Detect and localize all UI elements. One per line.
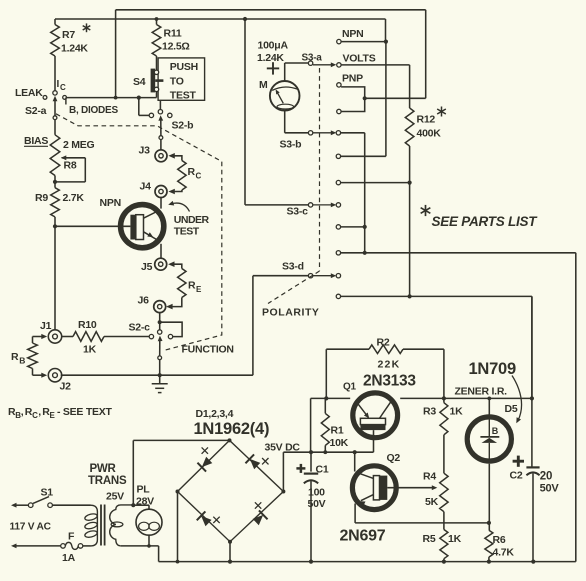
svg-text:R6: R6 [493,534,506,546]
wire second-bus right drop [385,19,387,42]
svg-text:C2: C2 [510,470,523,482]
wire R3-R4 [443,435,445,473]
label BIAS [24,135,48,147]
switch S2-a contact IB [63,96,67,100]
label R8 [64,160,77,172]
svg-text:R1: R1 [331,425,344,437]
svg-text:1N709: 1N709 [469,360,516,378]
wire VOLTS to R12 [341,65,410,108]
label R6 value [493,534,515,559]
resistor R5 [440,530,448,562]
label J6 [138,295,150,307]
svg-text:R8: R8 [64,160,77,172]
transformer T1 secondary [110,505,134,546]
switch S2-c contact right [168,334,172,338]
label NPN position [342,28,363,40]
wire secondary bottom [121,544,159,548]
fuse F [61,542,83,549]
label + C1 [296,464,328,476]
svg-text:C: C [60,83,66,92]
label S3-c [287,206,309,218]
svg-text:28V: 28V [136,495,154,507]
svg-text:R11: R11 [164,28,182,40]
label 35V DC [265,442,301,454]
label S3-d [282,261,304,273]
switch S4 box [158,58,205,100]
wire S2-b pivot to J3 [160,140,162,150]
resistor R6 [485,530,493,561]
switch S3-c contact 3 [336,251,576,255]
wire meter minus [285,111,309,133]
switch S4 contact bottom [154,87,158,97]
node junction C2 bottom [531,560,535,564]
transformer T1 core [101,505,105,546]
svg-text:J6: J6 [138,295,150,307]
label R4 value [425,496,439,508]
svg-text:R12: R12 [417,114,436,126]
svg-text:1.24K: 1.24K [61,43,88,55]
wire S2-c bracket [160,322,182,336]
switch S3-d wiper [313,273,336,278]
label R3 value [423,406,463,418]
svg-text:R: R [11,351,19,363]
label RC [188,166,202,181]
svg-text:SEE PARTS LIST: SEE PARTS LIST [432,214,539,229]
label RB RC RE SEE TEXT [8,406,113,420]
wire zener bottom [488,464,490,531]
svg-text:35V DC: 35V DC [265,442,301,454]
label D5 [505,403,518,415]
wire J1 to RB [33,334,48,343]
node junction NPN wire [384,40,388,44]
capacitor C2 [526,296,539,561]
svg-text:M: M [259,79,268,91]
svg-text:1N1962(4): 1N1962(4) [194,420,270,438]
label S2-a [25,105,47,117]
label S4 [133,76,146,88]
switch S2-b pivot [159,136,163,140]
wire PNP bracket [341,87,365,112]
switch S3-a contact NPN [337,39,341,43]
switch S3-b pole [308,131,312,135]
node junction R12 net/296 [408,294,412,298]
svg-text:2 MEG: 2 MEG [63,139,95,151]
wire NPN contact [341,41,387,43]
svg-text:TRANS: TRANS [88,475,127,487]
label S1 [41,487,54,499]
svg-text:TEST: TEST [174,225,200,237]
switch S3-c wiper [313,203,336,208]
wire top bus left drop [115,10,117,98]
wire J4 to collector [160,197,162,208]
svg-text:4.7K: 4.7K [493,547,515,559]
svg-text:C: C [32,411,38,420]
label ZENER I.R. [455,386,508,398]
svg-text:50V: 50V [308,498,326,510]
svg-text:B, DIODES: B, DIODES [69,105,118,116]
label R4 [423,471,436,483]
jack J5 [155,258,167,270]
wire Q1 base [373,430,375,452]
svg-text:1A: 1A [62,552,76,564]
diode D4 (lower-right leg) [253,502,268,525]
svg-text:S2-a: S2-a [25,105,47,117]
switch S3-a contact PNP2 [337,109,341,113]
label 25V [106,491,124,503]
wire emitter to J5 [160,244,162,258]
label + meter [267,62,279,74]
svg-text:25V: 25V [106,491,124,503]
bridge diamond [176,438,286,543]
resistor R3 [440,398,448,434]
wire AC line bottom [11,544,61,549]
meter M [270,81,300,111]
svg-text:POLARITY: POLARITY [262,307,319,319]
switch S2-c contact left [149,334,153,338]
svg-text:100μA: 100μA [258,40,289,52]
svg-text:S3-b: S3-b [280,139,302,151]
switch S2-a wiper [53,96,58,116]
label R1 value [330,437,349,449]
svg-text:S2-c: S2-c [129,322,151,334]
svg-text:R5: R5 [423,533,436,545]
label 117 V AC [10,522,52,533]
label SEE PARTS LIST [421,205,539,229]
svg-text:,: , [21,406,24,418]
label J2 [60,381,72,393]
svg-text:R3: R3 [423,406,436,418]
zener diode D5 [467,398,511,461]
svg-text:S3-a: S3-a [302,53,323,64]
label J1 [40,320,52,332]
svg-text:R4: R4 [423,471,436,483]
wire bridge minus drop [176,492,180,564]
wire S2-c to ground [159,360,161,375]
switch S3-b contact 1 [336,131,365,135]
switch S3-a contact PNP [337,83,341,87]
pilot lamp PL [136,505,162,545]
wire S2-a to bias pot [54,120,56,135]
svg-text:R7: R7 [62,29,75,41]
label 1.24K meter [257,52,284,64]
svg-text:R10: R10 [78,319,97,331]
wire second bus (R7/R11 net) [55,18,386,20]
node junction second-bus / meter branch [243,17,247,21]
switch S3-b wiper [313,130,336,135]
resistor RB [28,343,48,378]
svg-text:Q1: Q1 [343,382,357,393]
svg-text:PUSH: PUSH [170,61,198,73]
svg-text:10K: 10K [330,437,349,449]
svg-text:,: , [38,406,41,418]
jack J2 [48,369,61,382]
svg-text:ZENER I.R.: ZENER I.R. [455,386,508,398]
wire base to NPN [55,225,130,227]
switch S2-c pivot [158,356,162,360]
label M [259,79,268,91]
switch S2-b contact left [149,113,153,117]
svg-text:C: C [196,172,202,181]
node junction 25V tap [131,503,135,507]
diode D2 (upper-right leg) [245,454,268,469]
label S3-a [302,53,323,64]
switch S1 [28,497,52,508]
svg-text:BIAS: BIAS [24,135,48,147]
label RB [11,351,25,366]
svg-text:20: 20 [540,471,552,483]
wire fuse to transformer [83,545,91,547]
resistor R2 [369,345,403,354]
switch S4 contact top [154,70,158,74]
arrow to transistor under test [168,201,189,212]
label J4 [140,181,152,193]
resistor R12 [405,108,414,183]
svg-text:- SEE TEXT: - SEE TEXT [57,406,113,418]
label FUNCTION [182,344,234,356]
svg-text:PL: PL [137,484,151,496]
label S3-b [280,139,302,151]
switch S3-a contact VOLTS [337,63,341,67]
switch S2-b wiper [158,115,163,135]
svg-text:F: F [68,531,75,543]
label R1 [331,425,344,437]
svg-text:Q2: Q2 [387,452,401,464]
label R2 [377,337,390,349]
svg-text:400K: 400K [417,128,442,140]
jack J1 [48,330,61,343]
wire top bus (S4/box net) [116,9,426,11]
resistor R9 [51,182,60,226]
svg-text:PWR: PWR [90,463,117,475]
label C1 value [308,487,326,511]
diode D1 (upper-left leg) [197,447,212,471]
wire top bus right drop [425,10,427,99]
switch S2-a contact LEAK [43,96,47,100]
switch S3-d contact 2 [336,294,532,298]
wire Q2 base to R4 [387,485,437,490]
label + C2 [510,456,525,482]
arrow to D5 [512,376,522,424]
label F [68,531,75,543]
label R2 value [378,359,401,371]
label C2 value [540,471,560,495]
svg-text:2N3133: 2N3133 [363,373,416,390]
wire ground bus [61,374,253,376]
wire main rail left [311,398,351,452]
label LEAK [15,87,43,99]
label Q2 [387,452,401,464]
label POLARITY [262,307,319,319]
label R7 value [61,23,90,54]
capacitor C1 [304,452,318,561]
label R10 [78,319,97,331]
switch S3-b contact 3 [336,180,409,184]
node junction C1 bottom [309,560,313,564]
node junction R5 bottom [442,560,446,564]
label R10 value [83,344,97,356]
label 1N709 [469,360,516,378]
svg-text:R2: R2 [377,337,390,349]
wire secondary top [133,504,149,506]
potentiometer R4 [440,473,448,512]
resistor RC [168,153,186,194]
resistor R10 [62,332,149,342]
svg-text:1K: 1K [448,533,462,545]
svg-text:1K: 1K [450,406,464,418]
label D1,2,3,4 [196,408,234,420]
transistor Q1 [353,393,398,438]
wire PNP to top-bus drop [365,97,426,99]
svg-text:R9: R9 [35,192,48,204]
svg-text:S2-b: S2-b [172,120,194,132]
switch S3-a wiper [313,62,336,67]
jack J3 [155,150,167,162]
label R5 value [423,533,462,545]
label 100uA [258,40,289,52]
switch S2-b contact center [158,100,162,114]
switch S3-a pole [308,61,312,65]
wire IB net [67,97,157,99]
label S2-b [172,120,194,132]
svg-text:22K: 22K [378,359,401,371]
wire J6 drop [159,312,161,330]
node junction PNP bracket [363,96,367,100]
potentiometer R8 wiper [55,155,85,182]
svg-text:LEAK: LEAK [15,87,43,99]
switch S2-c contact center [158,330,162,334]
svg-text:D5: D5 [505,403,518,415]
switch S2-b contact right [168,113,172,117]
node junction base [53,224,57,228]
resistor RE [166,261,186,309]
label IC [57,79,67,92]
label 2 MEG [63,139,95,151]
svg-text:2.7K: 2.7K [63,192,85,204]
resistor R7 [51,19,60,91]
wire S3 bracket vertical [364,133,366,253]
svg-text:J3: J3 [139,145,151,157]
node junction R1 top [324,396,328,400]
svg-text:J2: J2 [60,381,72,393]
switch S2-a contact IC [53,91,57,95]
wire Q2 emitter [355,504,488,523]
label J3 [139,145,151,157]
ground symbol [152,375,168,392]
label VOLTS [343,53,376,65]
label J5 [141,261,153,273]
svg-text:J5: J5 [141,261,153,273]
svg-text:1.24K: 1.24K [257,52,284,64]
node junction bracket/226 [363,225,367,229]
svg-text:NPN: NPN [342,28,363,40]
switch S3-c contact 2 [336,225,365,229]
switch S4 button [151,69,164,93]
svg-text:100: 100 [308,487,325,499]
label R12 value [417,107,446,140]
switch S2-a pivot [53,116,57,120]
svg-text:1K: 1K [83,344,97,356]
svg-text:S3-d: S3-d [282,261,304,273]
wire bridge plus [283,452,373,491]
wire S3-c feed [245,19,309,205]
wire R2 right leg [403,349,444,398]
node junction zener top [487,397,491,401]
resistor 2 MEG (R8 pot) [50,135,60,182]
label PL 28V [136,484,154,508]
svg-text:S1: S1 [41,487,54,499]
jack J4 [155,186,167,198]
svg-text:5K: 5K [425,496,439,508]
wire S3-d feed [253,276,309,376]
switch S3-b contact 2 [336,154,340,158]
node junction R8/R9 [53,180,57,184]
svg-text:50V: 50V [540,482,560,494]
wire AC line top [11,503,28,508]
svg-text:TEST: TEST [170,90,197,102]
label 1N1962(4) [194,420,270,438]
switch S3-d pole [308,274,312,278]
svg-text:J4: J4 [140,181,152,193]
label PNP position [342,73,363,85]
svg-text:D1,2,3,4: D1,2,3,4 [196,408,234,420]
node junction R3 top [442,396,446,400]
label R9 value [35,192,84,204]
ganged switch S3 link [268,68,320,304]
svg-text:R: R [188,280,196,292]
wire 296 drop [531,296,533,398]
node junction IB wire to S2-b [137,96,150,116]
node junction R12 bottom [408,181,412,185]
wire right outer drop [575,253,577,562]
node junction zener/emitter [487,521,491,525]
label NPN (device type) [100,197,121,209]
svg-text:B: B [19,356,25,366]
node junction R1 bottom [323,450,327,454]
label B in zener [492,426,499,436]
svg-text:R: R [188,166,196,178]
resistor R11 [152,17,161,70]
svg-text:VOLTS: VOLTS [343,53,376,65]
switch S3-c pole [308,203,312,207]
wire R4-R5 [443,512,445,530]
label Q1 [343,382,357,393]
label 2N697 [340,528,386,545]
wire main rail right [400,397,532,399]
svg-text:UNDER: UNDER [174,214,210,226]
wire NPN net drop [341,42,386,157]
svg-text:S3-c: S3-c [287,206,309,218]
svg-text:12.5Ω: 12.5Ω [162,41,190,53]
label UNDER TEST [174,214,210,237]
svg-text:S4: S4 [133,76,146,88]
svg-text:NPN: NPN [100,197,121,209]
node junction top-bus / IB wire [114,96,118,100]
label 2N3133 [363,373,416,390]
node junction ground [158,373,162,377]
switch S2-c wiper [158,336,163,356]
label PWR TRANS [88,463,127,487]
svg-text:PNP: PNP [342,73,363,85]
node junction bracket/252 [363,251,367,255]
svg-text:TO: TO [170,76,184,88]
label R11 value [162,28,190,53]
node junction R6 bottom [487,560,491,564]
label S2-c [129,322,151,334]
wire meter plus [285,63,309,81]
wire Q2 collector [354,452,356,471]
svg-text:FUNCTION: FUNCTION [182,344,234,356]
node junction rail/531 [530,396,534,400]
